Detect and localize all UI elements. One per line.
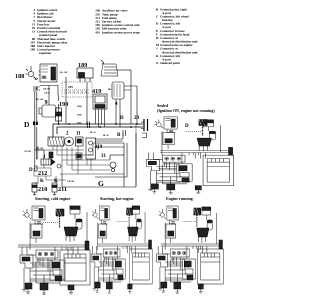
svg-text:80: 80 bbox=[42, 76, 48, 81]
svg-text:D: D bbox=[24, 120, 30, 129]
svg-text:BB: BB bbox=[108, 89, 112, 91]
control pressure regulator 189 bbox=[78, 62, 87, 69]
idle increase relay 295 (dashed) bbox=[68, 85, 73, 89]
vertical feeders above bus bbox=[59, 70, 138, 127]
wire C down bbox=[35, 86, 58, 151]
starter motor 9 bbox=[45, 99, 48, 106]
junction dots bbox=[87, 122, 89, 129]
wire from bus down left x34.8 bbox=[35, 127, 38, 166]
K connectors bbox=[40, 179, 74, 184]
relay 80 bbox=[40, 64, 57, 82]
aux air valve 190 bbox=[59, 101, 68, 108]
svg-text:260b: 260b bbox=[77, 106, 82, 108]
service socket 212 with J bbox=[24, 148, 46, 160]
svg-text:GR-SB: GR-SB bbox=[67, 181, 74, 183]
svg-text:regulator: regulator bbox=[39, 51, 52, 55]
svg-text:419: 419 bbox=[95, 30, 100, 34]
ignition power stage 419 bbox=[92, 88, 101, 95]
main bus wires bbox=[53, 124, 143, 137]
connector B bbox=[117, 133, 121, 138]
svg-text:K: K bbox=[40, 179, 44, 184]
node D right and 29 bbox=[120, 116, 140, 121]
svg-text:295: 295 bbox=[68, 85, 73, 89]
svg-text:D: D bbox=[120, 116, 124, 121]
legend column 3 bbox=[156, 7, 199, 65]
cold start sub-diagram bbox=[22, 206, 45, 250]
svg-text:GR-R: GR-R bbox=[44, 93, 50, 95]
svg-text:BL-R: BL-R bbox=[90, 132, 96, 134]
svg-text:GR-SB: GR-SB bbox=[43, 89, 50, 91]
svg-text:189: 189 bbox=[30, 48, 35, 52]
svg-text:210: 210 bbox=[38, 186, 47, 193]
electronic pump relay 119 bbox=[95, 145, 103, 150]
svg-text:119: 119 bbox=[95, 145, 103, 150]
engine running sub-diagram bbox=[158, 206, 178, 250]
labels 2 1 11 bbox=[66, 132, 109, 138]
legend column 1 bbox=[30, 8, 68, 55]
svg-text:31: 31 bbox=[101, 154, 107, 159]
svg-text:BL-GR: BL-GR bbox=[60, 72, 68, 74]
svg-text:211: 211 bbox=[58, 186, 67, 193]
svg-text:D: D bbox=[185, 124, 189, 129]
label 31 bbox=[101, 154, 107, 159]
svg-text:Starting, hot engine: Starting, hot engine bbox=[100, 196, 134, 201]
soldered point bbox=[110, 162, 116, 172]
legend column 2 bbox=[95, 9, 140, 35]
connector D + 212 bbox=[29, 168, 33, 173]
svg-text:CH-SB: CH-SB bbox=[24, 151, 31, 153]
node D left bbox=[24, 120, 30, 129]
bottom frame of main bbox=[135, 124, 137, 187]
wire labels row bbox=[36, 89, 112, 125]
svg-text:BL-GR: BL-GR bbox=[36, 99, 44, 101]
tank pump 210 bbox=[32, 183, 37, 192]
node G bbox=[98, 179, 104, 188]
svg-text:BL-R: BL-R bbox=[103, 135, 109, 137]
sealed sub-diagram bbox=[154, 117, 177, 155]
start injector 188 bbox=[15, 73, 24, 80]
svg-text:(Ignition ON, engine not runni: (Ignition ON, engine not running) bbox=[157, 108, 215, 113]
svg-text:D: D bbox=[29, 168, 33, 173]
right frame wires bbox=[95, 133, 123, 141]
positive terminal 29 bbox=[141, 119, 148, 138]
svg-text:G: G bbox=[98, 179, 104, 188]
connector C bbox=[36, 72, 68, 93]
svg-text:31: 31 bbox=[32, 30, 36, 34]
svg-text:Ignition system power stage: Ignition system power stage bbox=[102, 30, 140, 34]
svg-text:11: 11 bbox=[76, 132, 81, 137]
svg-text:Engine running: Engine running bbox=[166, 196, 193, 201]
svg-text:260b: 260b bbox=[77, 115, 82, 117]
ignition switch 3 bbox=[101, 60, 131, 76]
svg-text:190: 190 bbox=[59, 101, 68, 108]
ignition coil 4 bbox=[112, 82, 124, 99]
svg-text:C: C bbox=[36, 86, 40, 93]
svg-text:Starting, cold engine: Starting, cold engine bbox=[35, 196, 70, 201]
svg-text:188: 188 bbox=[15, 73, 24, 80]
svg-text:Soldered point: Soldered point bbox=[160, 61, 181, 65]
lower mesh wires bbox=[35, 150, 66, 183]
headings bbox=[35, 103, 215, 201]
fuse row with distributor bbox=[48, 137, 83, 146]
hot start sub-diagram bbox=[92, 206, 109, 250]
fuel pump 211 bbox=[52, 183, 57, 192]
